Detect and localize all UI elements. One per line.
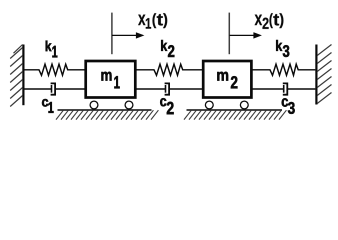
wheel m1 left — [90, 101, 98, 109]
ground strip under m1 — [56, 110, 158, 120]
spring k3 — [253, 64, 316, 75]
label m1 — [101, 72, 119, 88]
mass m2 box — [203, 61, 251, 98]
spring k2 — [137, 64, 203, 75]
wheel m2 right — [240, 101, 248, 109]
label c3 — [282, 98, 295, 114]
label k1 — [46, 41, 58, 58]
label m2 — [217, 72, 237, 89]
x2 reference tick line — [228, 13, 230, 55]
damper c2 (dashpot) — [137, 83, 203, 94]
right wall — [316, 45, 331, 105]
x2 displacement arrow — [229, 32, 262, 38]
label k2 — [161, 40, 174, 57]
label x1(t) — [138, 13, 167, 28]
x1 reference tick line — [111, 13, 113, 55]
wheel m2 left — [205, 101, 213, 109]
damper c3 (dashpot) — [253, 83, 316, 94]
label c1 — [42, 99, 54, 113]
mass m1 box — [86, 61, 136, 98]
label k3 — [276, 40, 289, 57]
ground strip under m2 — [184, 110, 286, 120]
damper c1 (dashpot) — [24, 83, 85, 94]
label c2 — [160, 98, 173, 114]
left wall — [10, 45, 23, 107]
label x2(t) — [255, 13, 284, 29]
x1 displacement arrow — [112, 32, 144, 38]
spring k1 — [24, 64, 85, 75]
wheel m1 right — [125, 101, 133, 109]
